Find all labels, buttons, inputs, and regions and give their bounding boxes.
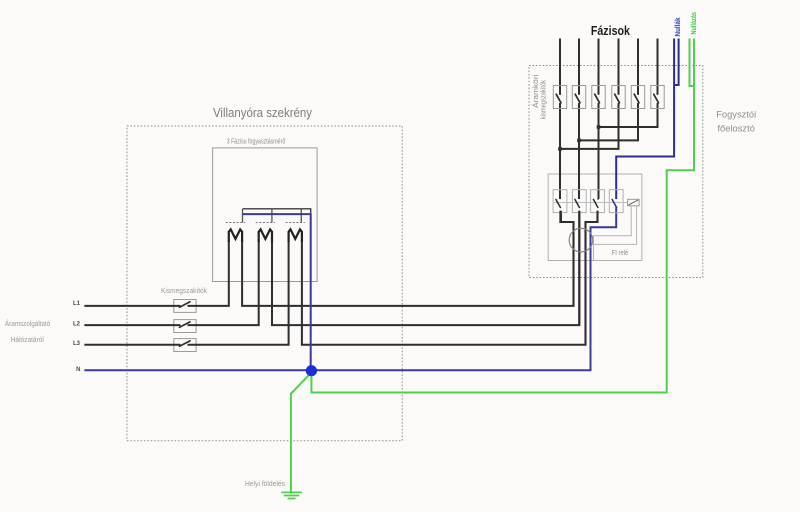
svg-text:3 Fázisu fogyasztásmérő: 3 Fázisu fogyasztásmérő (227, 139, 286, 146)
svg-text:Hálózatáról: Hálózatáról (11, 337, 45, 344)
svg-text:kismegszakítók: kismegszakítók (541, 80, 548, 119)
svg-text:L2: L2 (73, 321, 81, 327)
svg-text:Helyi földelés: Helyi földelés (245, 479, 285, 488)
svg-text:Villanyóra szekrény: Villanyóra szekrény (213, 105, 312, 120)
svg-text:Kismegszakítók: Kismegszakítók (161, 286, 207, 295)
svg-text:Áramszolgáltató: Áramszolgáltató (5, 319, 51, 328)
svg-text:N: N (76, 367, 80, 373)
svg-text:FI relé: FI relé (612, 250, 629, 257)
svg-text:L1: L1 (73, 301, 81, 307)
svg-text:Nullázás: Nullázás (691, 12, 698, 35)
svg-text:Fázisok: Fázisok (591, 24, 630, 38)
svg-text:Nullák: Nullák (675, 17, 682, 36)
svg-text:Fogysztói: Fogysztói (716, 110, 756, 121)
svg-text:Áramköri: Áramköri (531, 74, 540, 108)
svg-text:főelosztó: főelosztó (717, 124, 755, 135)
svg-text:L3: L3 (73, 341, 81, 347)
